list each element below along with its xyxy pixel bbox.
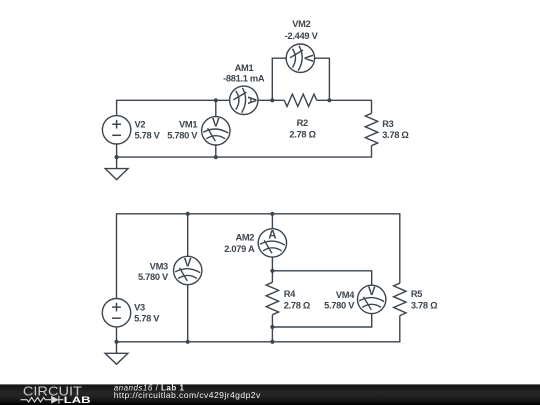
svg-text:VM2: VM2 (292, 19, 310, 29)
wire V2 bottom (116, 144, 118, 157)
resistor R2 (284, 94, 316, 106)
resistor R5 (394, 283, 406, 315)
wire V3 bottom to ground 2 (116, 327, 118, 353)
junction R4 chain bottom (270, 340, 274, 344)
wire VM1 bottom (215, 145, 217, 157)
svg-text:R5: R5 (411, 289, 422, 299)
svg-text:V: V (368, 286, 376, 298)
voltmeter VM3 (174, 256, 202, 284)
svg-text:A: A (268, 230, 276, 242)
junction R4 bottom node (270, 325, 274, 329)
resistor R4 (266, 282, 278, 314)
svg-text:5.78 V: 5.78 V (134, 314, 160, 324)
junction VM1 top (214, 98, 218, 102)
svg-text:AM2: AM2 (235, 233, 254, 243)
svg-text:AM1: AM1 (235, 63, 254, 73)
logo wire with resistor (21, 397, 52, 402)
wire node N2 to R3 top (329, 100, 371, 113)
svg-text:5.780 V: 5.780 V (324, 301, 355, 311)
svg-text:V2: V2 (135, 119, 146, 129)
svg-text:V: V (212, 118, 220, 130)
ground top circuit (105, 169, 128, 180)
footer bar (0, 384, 540, 405)
wire VM2 right down to N2 (315, 58, 330, 100)
svg-text:2.079 A: 2.079 A (224, 244, 255, 254)
svg-text:2.78 Ω: 2.78 Ω (289, 129, 316, 139)
wire AM2 bottom to R4 top node (271, 257, 273, 271)
svg-text:2.78 Ω: 2.78 Ω (284, 300, 311, 310)
voltage source V3 (102, 299, 130, 327)
wire to ground 1 (116, 157, 118, 169)
ammeter AM1 (230, 86, 258, 114)
logo diode (51, 396, 59, 404)
svg-text:http://circuitlab.com/cv429jr4: http://circuitlab.com/cv429jr4gdp2v (114, 390, 261, 400)
wire R5 bottom along bottom rail (117, 316, 400, 342)
wire AM2 top (271, 214, 273, 229)
wire VM3 bottom (187, 285, 189, 342)
svg-text:3.78 Ω: 3.78 Ω (382, 130, 409, 140)
svg-text:VM4: VM4 (336, 290, 355, 300)
wire left rail up, top rail, to R5 top (117, 214, 400, 299)
wire VM1 top (215, 100, 217, 116)
junction node N1 (270, 98, 274, 102)
junction VM3 top (186, 212, 190, 216)
svg-text:V: V (302, 54, 314, 62)
ammeter AM2 (258, 229, 286, 257)
svg-text:5.780 V: 5.780 V (167, 131, 198, 141)
voltmeter VM2 (286, 44, 314, 72)
wire R4 top node to VM4 top (272, 271, 371, 285)
svg-text:R4: R4 (284, 289, 296, 299)
resistor R3 (365, 113, 377, 145)
svg-text:V3: V3 (134, 302, 145, 312)
svg-text:R3: R3 (382, 119, 393, 129)
junction VM1 bottom (214, 155, 218, 159)
voltage source V2 (102, 116, 130, 144)
wire R4 top stub (271, 271, 273, 283)
wire N1 up to VM2 left (272, 58, 286, 100)
voltmeter VM4 (358, 285, 386, 313)
junction R4 top node (270, 269, 274, 273)
junction VM3 bottom (186, 340, 190, 344)
wire AM1 right to node N1 (258, 99, 272, 101)
svg-text:5.780 V: 5.780 V (138, 272, 169, 282)
wire V2 top to AM1 left (117, 100, 230, 115)
svg-text:-2.449 V: -2.449 V (285, 31, 319, 41)
wire R4 bottom stub to bottom rail (271, 315, 273, 342)
svg-text:LAB: LAB (64, 395, 91, 405)
svg-text:A: A (245, 96, 257, 104)
wire VM3 top (187, 214, 189, 256)
svg-text:R2: R2 (297, 118, 308, 128)
svg-text:3.78 Ω: 3.78 Ω (411, 300, 438, 310)
svg-text:5.78 V: 5.78 V (135, 131, 161, 141)
svg-text:V: V (184, 257, 192, 269)
svg-text:-881.1 mA: -881.1 mA (223, 73, 265, 83)
wire VM4 bottom to R4 bottom node (272, 314, 371, 327)
ground bottom circuit (105, 353, 128, 364)
junction ground tee (114, 340, 118, 344)
svg-text:VM3: VM3 (150, 261, 168, 271)
svg-text:VM1: VM1 (179, 119, 197, 129)
wire node N1 to R2 (272, 99, 284, 101)
junction node N2 (327, 98, 331, 102)
wire R2 to node N2 (317, 99, 330, 101)
junction AM2 top (270, 212, 274, 216)
voltmeter VM1 (202, 117, 230, 145)
wire R3 bottom along bottom rail to V2 (117, 146, 372, 157)
junction V2 bottom (115, 155, 119, 159)
